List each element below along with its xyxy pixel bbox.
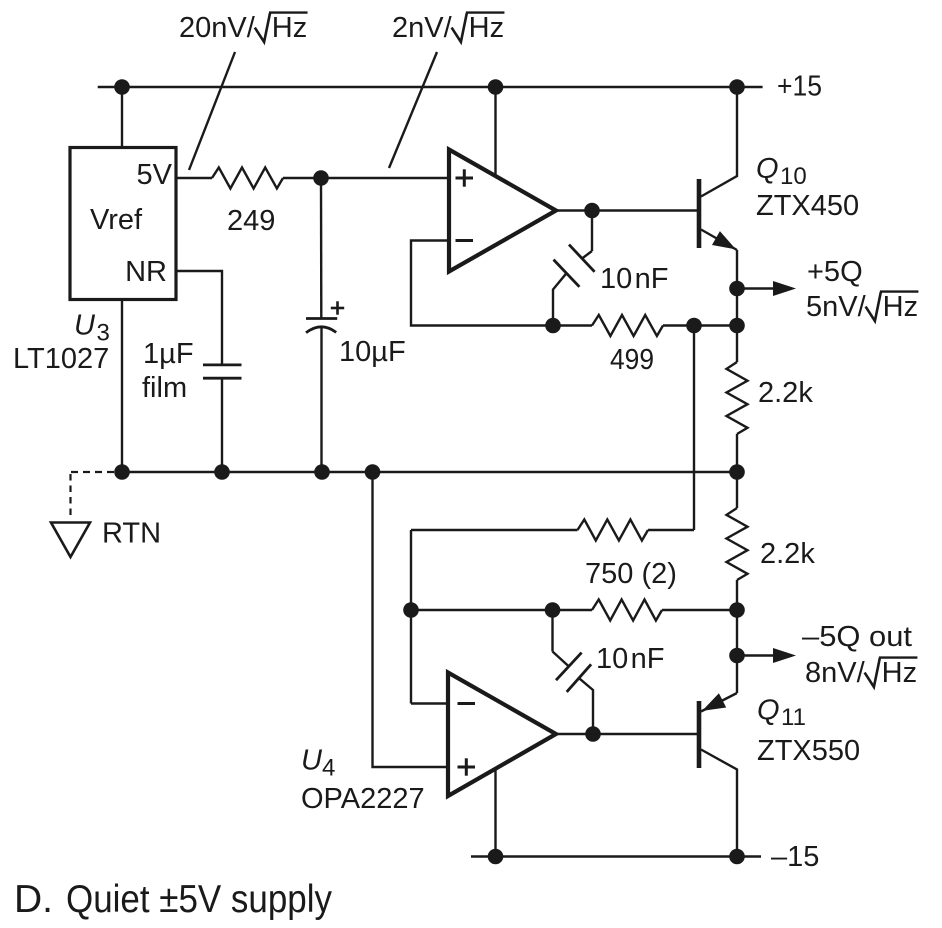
- junction dot: rail to 2.2k divider midpoint: [729, 464, 745, 480]
- svg-text:10 nF: 10 nF: [596, 643, 665, 675]
- svg-text:LT1027: LT1027: [13, 343, 109, 375]
- transistor Q11 emitter with arrow (PNP): [701, 693, 737, 712]
- svg-text:Q: Q: [756, 153, 779, 185]
- wire: U4a output to node B: [556, 209, 592, 211]
- svg-text:1µF: 1µF: [143, 338, 194, 370]
- wire: node A to op-amp U4a noninverting input: [321, 177, 449, 179]
- resistor R 2.2k (upper): [727, 362, 748, 434]
- resistor R 2.2k (lower): [727, 508, 748, 580]
- svg-text:–5Q out: –5Q out: [802, 621, 912, 653]
- capacitor C 10nF (U4a feedback): [553, 211, 595, 326]
- resistor R 249: [212, 168, 283, 189]
- designator Q11: [757, 695, 806, 732]
- designator Q10: [756, 153, 807, 190]
- wire: U4b output to node H: [556, 733, 593, 735]
- wire + resistor R 750 #1 row: [411, 520, 694, 541]
- svg-text:2nV/: 2nV/: [392, 12, 453, 44]
- wire: U4b inverting input: [411, 702, 448, 704]
- wire: node E to -5Q node: [736, 610, 738, 656]
- wire: node C to resistor 499: [553, 324, 592, 326]
- -5Q node dot: [729, 648, 745, 664]
- node C junction dot (feedback left): [545, 318, 561, 334]
- svg-text:2.2k: 2.2k: [760, 538, 815, 570]
- junction dot: op-amp U4a V+ to +15 rail: [488, 79, 504, 95]
- wire: +5Q node to 2.2k: [736, 289, 738, 363]
- label 1uF film: [142, 338, 194, 404]
- svg-text:Q: Q: [757, 695, 780, 727]
- voltage reference U3 LT1027 box: [70, 148, 176, 300]
- wire: resistor 249 to node A: [283, 177, 321, 179]
- svg-text:249: 249: [227, 205, 275, 237]
- svg-text:10 nF: 10 nF: [600, 263, 669, 295]
- wire: ground rail to lower 2.2k: [736, 472, 738, 508]
- svg-text:+15: +15: [777, 71, 822, 103]
- junction dot on +5Q column at feedback row: [729, 318, 745, 334]
- ground symbol RTN (open triangle): [51, 523, 90, 558]
- -5Q output arrow: [737, 654, 777, 656]
- svg-text:20nV/: 20nV/: [179, 12, 256, 44]
- +15 supply rail wire: [98, 86, 763, 88]
- wire: NR pin right and down to 1uF film cap: [176, 271, 222, 364]
- op-amp U4b triangle: [448, 673, 556, 797]
- transistor Q10 emitter with arrow: [701, 230, 737, 251]
- svg-text:5nV/: 5nV/: [806, 291, 867, 323]
- wire: 2.2k to ground rail: [736, 434, 738, 472]
- svg-text:Hz: Hz: [469, 12, 504, 44]
- +5Q output arrow: [737, 287, 777, 289]
- svg-text:10: 10: [780, 163, 807, 190]
- svg-text:U: U: [301, 745, 323, 777]
- wire: node A down to capacitor 10uF: [320, 178, 323, 319]
- capacitor C 1uF film: [203, 365, 242, 378]
- -15 supply rail wire: [471, 855, 761, 857]
- transistor Q11 base bar: [697, 701, 702, 768]
- svg-text:RTN: RTN: [102, 518, 161, 550]
- svg-text:Hz: Hz: [883, 291, 918, 323]
- wire: node D to +5Q column: [694, 324, 737, 326]
- designator U4: [301, 745, 335, 782]
- wire: node F to node G: [411, 609, 553, 611]
- svg-text:film: film: [142, 372, 187, 404]
- wire: LT1027 bottom pin to ground rail: [121, 300, 123, 473]
- label 8nV/rtHz: [805, 657, 917, 689]
- svg-text:11: 11: [781, 704, 806, 731]
- capacitor C 10uF (polarized): [306, 301, 344, 332]
- wire: 1uF film to ground rail: [221, 379, 223, 473]
- svg-text:ZTX450: ZTX450: [756, 190, 859, 222]
- svg-text:5V: 5V: [137, 159, 173, 191]
- wire: LT1027 top pin to +15 rail: [121, 87, 123, 148]
- wire: -5Q node to Q11 emitter: [736, 656, 738, 694]
- op-amp U4b minus input marker: [458, 702, 476, 705]
- svg-text:8nV/: 8nV/: [805, 657, 866, 689]
- +5Q node dot: [729, 281, 745, 297]
- node E junction dot (divider / 750 row): [729, 602, 745, 618]
- svg-text:750 (2): 750 (2): [585, 558, 677, 590]
- junction dot: 1uF to rail: [214, 464, 230, 480]
- designator U3: [74, 310, 110, 347]
- caption D. Quiet +/-5V supply: [14, 878, 332, 921]
- svg-text:4: 4: [322, 755, 335, 782]
- svg-text:2.2k: 2.2k: [758, 377, 813, 409]
- svg-text:NR: NR: [125, 256, 167, 288]
- svg-text:OPA2227: OPA2227: [301, 783, 425, 815]
- junction dot: Q11 collector to -15 rail: [729, 849, 745, 865]
- transistor Q11 collector: [701, 750, 737, 857]
- transistor Q10 base bar: [697, 179, 702, 248]
- node B junction dot (U4a output): [584, 203, 600, 219]
- wire: +15 rail to U4a V+: [494, 87, 496, 176]
- resistor R 499: [592, 315, 663, 336]
- node D junction dot (499 / divider tap wire): [686, 318, 702, 334]
- wire: lower 2.2k to node E: [736, 580, 738, 610]
- op-amp U4a minus input marker: [456, 239, 474, 242]
- resistor R 750 #2: [553, 600, 738, 621]
- svg-text:–15: –15: [771, 841, 819, 873]
- svg-text:Hz: Hz: [882, 657, 917, 689]
- ground return rail wire: [122, 471, 737, 473]
- op-amp U4a plus input marker: [456, 169, 474, 186]
- wire: Q10 emitter to +5Q node: [736, 250, 738, 289]
- op-amp U4a triangle: [449, 150, 556, 272]
- junction dot: 10uF to rail: [314, 464, 330, 480]
- svg-text:ZTX550: ZTX550: [757, 735, 860, 767]
- node A junction dot (249 / 10uF / op-amp +): [313, 170, 329, 186]
- wire: 499 to node D: [663, 324, 694, 326]
- wire: 750 row1 left down to U4b inverting input: [410, 530, 412, 704]
- wire: node D down to 750 row 1: [693, 326, 695, 531]
- svg-text:Vref: Vref: [90, 204, 143, 236]
- annotation slash for 2nV: [389, 52, 437, 168]
- junction dot: Q10 collector to +15 rail: [729, 79, 745, 95]
- label 5nV/rtHz: [806, 291, 918, 323]
- svg-text:499: 499: [610, 344, 654, 376]
- junction dot: LT1027 gnd: [114, 464, 130, 480]
- svg-text:+5Q: +5Q: [807, 256, 863, 288]
- wire: capacitor 10uF to ground rail: [320, 327, 322, 472]
- op-amp U4b plus input marker: [458, 758, 476, 775]
- node H junction dot (U4b output): [585, 726, 601, 742]
- annotation 20nV/rtHz label: [179, 12, 308, 44]
- node G junction dot (10nF tap): [545, 602, 561, 618]
- wire: ground rail to U4b noninverting input: [373, 472, 449, 767]
- node F junction dot (row2 left): [403, 602, 419, 618]
- svg-text:D.: D.: [14, 878, 53, 921]
- svg-text:Quiet ±5V supply: Quiet ±5V supply: [66, 878, 332, 921]
- dashed wire to RTN: [67, 471, 114, 473]
- wire: U4a inverting input to feedback node: [411, 241, 553, 326]
- wire: 5V pin to resistor 249: [176, 177, 212, 179]
- annotation 2nV/rtHz label: [392, 12, 504, 44]
- junction dot: LT1027 Vin to +15 rail: [114, 79, 130, 95]
- transistor Q10 collector: [701, 87, 737, 197]
- junction dot: U4b V- to -15 rail: [488, 849, 504, 865]
- svg-text:Hz: Hz: [272, 12, 307, 44]
- svg-text:10µF: 10µF: [339, 336, 406, 368]
- junction dot: U4b + input branch: [365, 464, 381, 480]
- wire: node H to Q11 base: [593, 733, 697, 735]
- wire: node B to Q10 base: [592, 209, 697, 211]
- annotation slash for 20nV: [189, 52, 235, 170]
- svg-text:U: U: [74, 310, 96, 342]
- wire: U4b V- to -15 rail: [494, 769, 496, 857]
- capacitor C 10nF (U4b feedback): [553, 610, 594, 734]
